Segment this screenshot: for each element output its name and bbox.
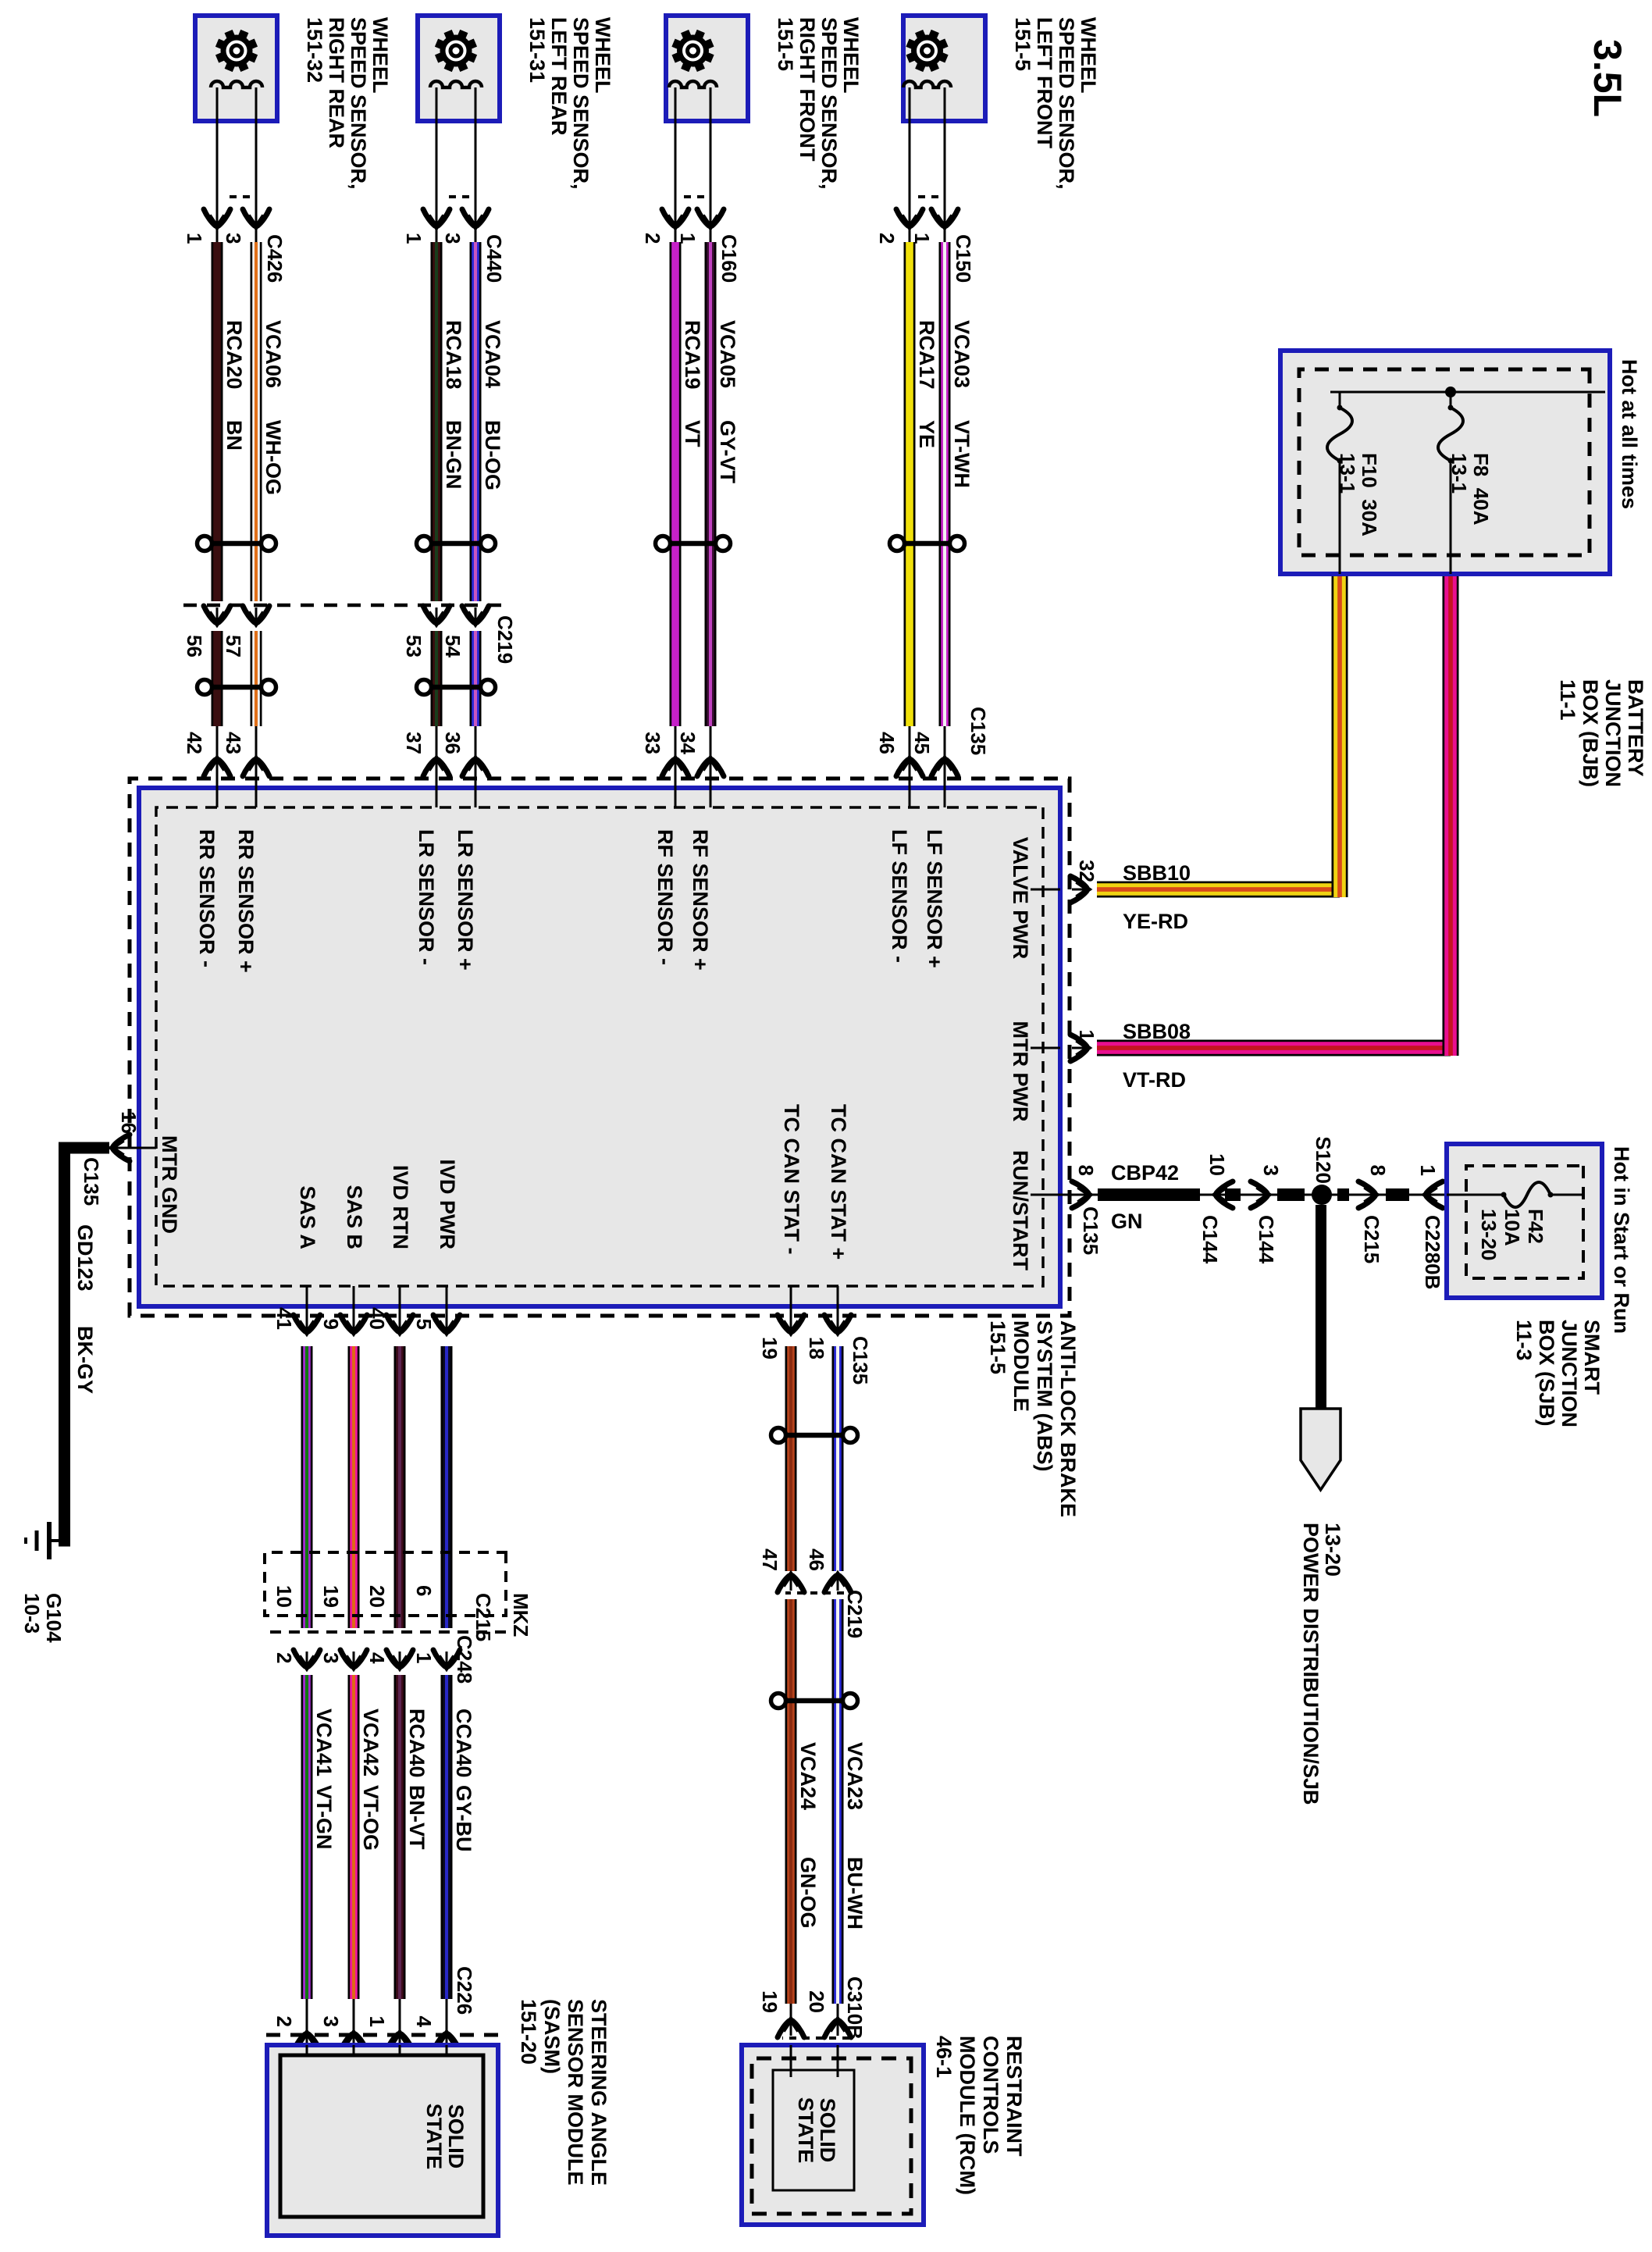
svg-text:WHEEL: WHEEL [368,17,392,94]
svg-text:1: 1 [402,233,425,244]
svg-text:C135: C135 [967,707,990,755]
svg-text:IVD RTN: IVD RTN [389,1165,412,1249]
wire VCA05 GY-VT (upper) [705,242,740,726]
svg-text:GY-BU: GY-BU [452,1785,475,1852]
RCM name label [932,2036,1026,2195]
connector C248 pin 3 [319,1650,367,1668]
svg-text:C426: C426 [263,234,287,283]
svg-text:VCA24: VCA24 [796,1742,820,1810]
svg-text:VT-WH: VT-WH [950,420,974,488]
svg-text:151-31: 151-31 [525,17,549,83]
SJB name label [1512,1320,1604,1427]
twisted pair marker VCA23/VCA24 (2) [771,1694,858,1709]
svg-text:BN: BN [223,420,246,451]
connector C248 pin 1 [412,1650,460,1668]
svg-text:43: 43 [222,732,245,754]
wire VCA04 after C219 [470,631,482,726]
wire CBP42 GN [1060,1161,1583,1233]
svg-text:41: 41 [272,1307,296,1330]
svg-text:8: 8 [1074,1165,1098,1176]
fuse F10 30A 13-1 [1327,392,1381,574]
connector C144 pin 10 [1198,1153,1233,1264]
svg-text:C215: C215 [472,1593,495,1641]
wire RCA20 after C219 [212,631,223,726]
connector C426 [204,197,287,283]
svg-text:4: 4 [365,1652,389,1664]
fuse F42 10A 13-20 [1447,1182,1583,1261]
svg-text:MODULE (RCM): MODULE (RCM) [956,2036,979,2195]
svg-text:2: 2 [272,1652,296,1663]
svg-text:BATTERY: BATTERY [1624,679,1647,777]
svg-text:VT: VT [681,420,704,447]
wheel speed sensor LEFT REAR 151-31 connector box [418,16,500,121]
svg-text:SYSTEM (ABS): SYSTEM (ABS) [1033,1320,1056,1472]
svg-text:F42: F42 [1524,1209,1547,1244]
connector C2280B pin 1 [1416,1165,1444,1290]
svg-text:RCA20: RCA20 [223,320,246,390]
module pin 1 (MTR PWR) arrow [1070,1030,1098,1061]
connector C248 pin 2 [272,1650,320,1668]
svg-text:C150: C150 [952,234,975,283]
twisted pair marker 2 VCA06/RCA20 [198,680,276,695]
connector C160 [662,197,741,283]
svg-text:SPEED SENSOR,: SPEED SENSOR, [347,17,370,190]
svg-text:GD123: GD123 [73,1224,97,1292]
smart junction box (SJB) [1447,1144,1602,1298]
svg-text:LR SENSOR -: LR SENSOR - [415,829,438,965]
svg-text:GY-VT: GY-VT [716,420,739,484]
svg-text:1: 1 [183,233,206,244]
wire SBB10 YE-RD [1097,574,1348,933]
svg-text:10A: 10A [1501,1209,1524,1246]
svg-text:GN-OG: GN-OG [796,1857,820,1929]
svg-text:ANTI-LOCK BRAKE: ANTI-LOCK BRAKE [1056,1320,1080,1517]
module pin label VALVE PWR [1009,837,1060,960]
wire leads from sensor C150 [910,87,945,242]
svg-text:RR SENSOR +: RR SENSOR + [234,829,258,973]
svg-text:RCA17: RCA17 [915,320,938,390]
svg-text:SMART: SMART [1580,1320,1604,1395]
module entry pins 45/46 [875,726,958,776]
svg-text:IVD PWR: IVD PWR [436,1159,459,1249]
wire VCA03 VT-WH (upper) [939,242,974,726]
svg-text:53: 53 [402,635,425,657]
wire VCA42 VT-OG [348,1346,383,1999]
svg-text:2: 2 [875,233,899,244]
svg-text:13-20: 13-20 [1477,1209,1501,1261]
connector C248 pin 4 [365,1650,413,1668]
svg-text:SPEED SENSOR,: SPEED SENSOR, [569,17,593,190]
connector C440 [423,197,506,283]
svg-text:5: 5 [412,1319,436,1330]
svg-text:RIGHT FRONT: RIGHT FRONT [796,17,819,162]
svg-text:42: 42 [183,732,206,754]
svg-text:54: 54 [441,635,465,657]
svg-text:SENSOR MODULE: SENSOR MODULE [564,1999,587,2186]
twisted pair marker VCA03/RCA17 [890,536,965,551]
svg-text:47: 47 [758,1548,781,1571]
module pin 16 (MTR GND) arrow [80,1111,156,1206]
label wheel speed sensor LEFT FRONT [1011,17,1100,190]
svg-text:40: 40 [365,1307,389,1330]
steering angle sensor module (SASM) box [267,2045,498,2236]
svg-text:16: 16 [117,1111,141,1134]
twisted pair marker VCA06/RCA20 [198,536,276,551]
svg-text:RR SENSOR -: RR SENSOR - [195,829,219,967]
wire RCA19 VT (lower) [670,242,705,726]
svg-text:33: 33 [641,732,664,754]
svg-text:BOX (BJB): BOX (BJB) [1579,679,1602,787]
svg-text:STEERING ANGLE: STEERING ANGLE [587,1999,611,2186]
svg-text:6: 6 [412,1585,436,1596]
connector C310B dashes + label [782,1976,867,2040]
svg-text:56: 56 [183,635,206,657]
svg-text:MKZ: MKZ [509,1593,532,1637]
module exit pin 19 (VCA24) [758,1315,804,1359]
module pin label IVD PWR [436,1159,459,1318]
svg-text:2: 2 [272,2016,296,2027]
svg-text:18: 18 [805,1337,828,1359]
wire VCA41 VT-GN [301,1346,336,1999]
svg-text:BOX (SJB): BOX (SJB) [1535,1320,1558,1427]
svg-text:YE: YE [915,420,938,448]
svg-text:57: 57 [222,635,245,657]
wire RCA20 BN (lower) [212,242,247,601]
svg-text:11-1: 11-1 [1556,679,1579,721]
svg-text:19: 19 [758,1990,781,2013]
battery junction box (BJB) [1280,351,1610,574]
splice S120 [1312,1136,1335,1205]
svg-text:19: 19 [758,1337,781,1359]
module entry pins 36/37 [402,726,489,776]
svg-text:C219: C219 [493,615,517,664]
svg-text:SBB08: SBB08 [1123,1020,1191,1043]
module exit pin 40 (RCA40) [365,1307,413,1333]
BJB name label [1556,679,1647,787]
svg-text:4: 4 [412,2016,436,2028]
module entry pins 43/42 [183,726,269,776]
svg-text:SBB10: SBB10 [1123,861,1191,885]
svg-text:SAS A: SAS A [296,1185,319,1249]
module pin label IVD RTN [389,1165,412,1318]
svg-text:VT-GN: VT-GN [312,1785,336,1850]
svg-text:TC CAN STAT -: TC CAN STAT - [780,1104,803,1254]
connector C219 dashed boundary [180,605,517,664]
svg-text:SOLID: SOLID [816,2098,839,2163]
svg-text:TC CAN STAT +: TC CAN STAT + [827,1104,850,1260]
wire RCA17 YE (lower) [904,242,939,726]
svg-text:YE-RD: YE-RD [1123,910,1188,933]
svg-text:1: 1 [412,1652,436,1663]
anti-lock brake system (ABS) module box [139,788,1060,1306]
svg-text:LF SENSOR +: LF SENSOR + [923,829,946,968]
svg-text:GN: GN [1111,1210,1143,1233]
svg-text:C226: C226 [453,1966,476,2015]
svg-text:RCA18: RCA18 [442,320,465,390]
sensor wire stubs inside module [217,775,945,807]
svg-text:BK-GY: BK-GY [73,1326,97,1394]
svg-text:Hot in Start or Run: Hot in Start or Run [1610,1146,1633,1334]
svg-text:46: 46 [805,1548,828,1571]
wire S120 branch to power distribution [1316,1205,1326,1409]
svg-text:46-1: 46-1 [932,2036,956,2078]
svg-text:S120: S120 [1312,1136,1335,1184]
connector C219 pin 46 [805,1548,851,1592]
SASM entry pin 1 [365,1999,413,2051]
svg-text:(SASM): (SASM) [540,1999,564,2074]
twisted pair marker VCA04/RCA18 [417,536,496,551]
svg-text:32: 32 [1075,860,1098,882]
connector C248 dashed line [265,1632,506,1684]
svg-text:BN-GN: BN-GN [442,420,465,490]
svg-text:F8 40A: F8 40A [1469,453,1493,526]
svg-text:VCA23: VCA23 [843,1742,867,1810]
twisted pair marker VCA05/RCA19 [656,536,731,551]
svg-text:C144: C144 [1198,1215,1222,1264]
svg-text:G104: G104 [42,1593,66,1643]
module pin label SAS B [343,1185,366,1318]
svg-text:C135: C135 [849,1336,872,1384]
svg-text:RCA19: RCA19 [681,320,704,390]
svg-text:LR SENSOR +: LR SENSOR + [454,829,477,971]
module entry pins 34/33 [641,726,724,776]
svg-text:3: 3 [441,233,465,244]
svg-text:46: 46 [875,732,899,754]
svg-text:13-1: 13-1 [1336,453,1359,494]
svg-text:VT-RD: VT-RD [1123,1068,1186,1092]
wire VCA06 after C219 [251,631,262,726]
wire leads from sensor C426 [217,87,256,242]
svg-text:BN-VT: BN-VT [405,1785,429,1850]
svg-text:3: 3 [319,2016,343,2027]
SASM entry pin 3 [319,1999,367,2051]
svg-text:RUN/START: RUN/START [1009,1150,1032,1270]
svg-text:RIGHT REAR: RIGHT REAR [325,17,348,148]
svg-text:CBP42: CBP42 [1111,1161,1179,1185]
svg-text:13-1: 13-1 [1447,453,1471,494]
label wheel speed sensor RIGHT REAR [303,17,392,190]
wheel speed sensor RIGHT FRONT 151-5 connector box [666,16,748,121]
module pin label MTR PWR [1009,1021,1060,1122]
module exit pin 41 (VCA41) [272,1307,320,1333]
svg-text:C160: C160 [717,234,741,283]
svg-text:C440: C440 [482,234,506,283]
module pin 8 (RUN/START) arrow [1072,1165,1102,1256]
svg-text:WHEEL: WHEEL [591,17,614,94]
connector C219 pin 47 [758,1548,804,1592]
twisted pair marker 2 VCA04/RCA18 [417,680,496,695]
ABS module name label [986,1320,1080,1517]
wire VCA06 WH-OG (upper) [251,242,286,601]
twisted pair marker VCA23/VCA24 (1) [771,1428,858,1443]
wire VCA23 BU-WH [832,1346,867,2004]
RCM entry pin 20 [805,1990,851,2037]
svg-text:151-20: 151-20 [517,1999,540,2065]
svg-text:F10 30A: F10 30A [1358,453,1381,536]
svg-text:34: 34 [676,732,700,754]
svg-text:2: 2 [641,233,664,244]
svg-text:C248: C248 [453,1635,476,1684]
svg-text:1: 1 [365,2016,389,2027]
wire leads from sensor C440 [436,87,475,242]
SASM entry pin 2 [272,1999,320,2051]
connector C219 pins 56/57 [183,606,269,657]
svg-text:WH-OG: WH-OG [262,420,285,495]
off-page arrow 13-20 POWER DISTRIBUTION/SJB [1299,1409,1344,1805]
svg-text:LEFT REAR: LEFT REAR [547,17,571,136]
SASM entry dashed line [265,2033,498,2037]
svg-text:C215: C215 [1360,1215,1383,1263]
svg-text:VCA06: VCA06 [262,320,285,388]
svg-text:VCA42: VCA42 [359,1709,383,1776]
svg-text:SPEED SENSOR,: SPEED SENSOR, [1055,17,1078,190]
svg-text:POWER DISTRIBUTION/SJB: POWER DISTRIBUTION/SJB [1299,1523,1323,1805]
svg-text:BU-WH: BU-WH [843,1857,867,1930]
svg-text:3: 3 [222,233,245,244]
svg-text:C135: C135 [1079,1206,1102,1255]
connector C215 pin 8 [1358,1165,1390,1264]
svg-text:C135: C135 [80,1157,103,1206]
svg-text:RCA40: RCA40 [405,1709,429,1778]
svg-text:VT-OG: VT-OG [359,1785,383,1851]
svg-text:SPEED SENSOR,: SPEED SENSOR, [817,17,841,190]
wire leads from sensor C160 [675,87,710,242]
wire RCA18 after C219 [431,631,443,726]
svg-text:C144: C144 [1255,1215,1278,1264]
svg-text:RESTRAINT: RESTRAINT [1002,2036,1026,2157]
SASM entry pin 4 [412,1999,460,2051]
wire VCA04 BU-OG (upper) [470,242,505,601]
svg-text:19: 19 [319,1585,343,1608]
svg-text:CONTROLS: CONTROLS [979,2036,1002,2154]
svg-text:MODULE: MODULE [1009,1320,1033,1412]
label wheel speed sensor RIGHT FRONT [774,17,863,190]
wire CCA40 GY-BU [441,1346,476,1999]
wire RCA18 BN-GN (lower) [431,242,466,601]
svg-text:151-5: 151-5 [774,17,797,71]
svg-text:13-20: 13-20 [1321,1523,1344,1577]
svg-text:11-3: 11-3 [1512,1320,1536,1361]
svg-text:Hot at all times: Hot at all times [1618,359,1641,509]
svg-text:3: 3 [319,1652,343,1663]
connector C219 pins 53/54 [402,606,489,657]
ground G104 [20,1522,66,1643]
svg-text:VCA04: VCA04 [481,320,504,388]
svg-text:45: 45 [910,732,934,754]
svg-text:MTR PWR: MTR PWR [1009,1021,1032,1122]
svg-text:SAS B: SAS B [343,1185,366,1249]
svg-text:BU-OG: BU-OG [481,420,504,490]
module pin label RUN/START [1009,1150,1060,1270]
svg-text:CCA40: CCA40 [452,1709,475,1778]
wire RCA40 BN-VT [394,1346,429,1999]
wheel speed sensor RIGHT REAR 151-32 connector box [195,16,277,121]
connector MKZ C215 dashed box [265,1552,532,1641]
connector C219 (CAN) dashes + label [785,1590,867,1638]
svg-text:C219: C219 [843,1590,867,1638]
svg-text:VCA41: VCA41 [312,1709,336,1776]
svg-text:RF SENSOR +: RF SENSOR + [689,829,712,971]
svg-text:10: 10 [1205,1153,1229,1176]
svg-text:9: 9 [319,1319,343,1330]
fuse F8 40A 13-1 [1438,392,1493,574]
svg-text:JUNCTION: JUNCTION [1558,1320,1581,1427]
svg-text:20: 20 [805,1990,828,2013]
wire SBB08 VT-RD [1097,574,1459,1092]
BJB bus wire [1330,387,1605,397]
RCM entry pin 19 [758,1990,804,2037]
SASM name label [517,1999,611,2186]
svg-text:C310B: C310B [843,1976,867,2040]
connector C150 [896,197,975,283]
svg-text:151-32: 151-32 [303,17,326,83]
label wheel speed sensor LEFT REAR [525,17,614,190]
svg-text:151-5: 151-5 [986,1320,1009,1374]
module pin label SAS A [296,1185,319,1318]
wire GD123 BK-GY [59,1142,109,1547]
wire VCA24 GN-OG [785,1346,821,2004]
svg-text:3.5L: 3.5L [1586,39,1629,117]
svg-text:JUNCTION: JUNCTION [1601,679,1625,787]
connector C144 pin 3 [1251,1165,1283,1264]
svg-text:8: 8 [1366,1165,1390,1176]
svg-text:C2280B: C2280B [1421,1215,1444,1289]
svg-text:1: 1 [1075,1030,1098,1041]
svg-text:36: 36 [441,732,465,754]
svg-text:WHEEL: WHEEL [839,17,863,94]
svg-text:MTR GND: MTR GND [158,1135,181,1234]
svg-text:SOLID: SOLID [444,2104,468,2169]
ABS module outer dashed harness boundary C135 [130,779,1070,1316]
svg-text:LF SENSOR -: LF SENSOR - [888,829,911,963]
module exit pin 18 (VCA23) [805,1315,851,1359]
svg-text:151-5: 151-5 [1011,17,1034,71]
wheel speed sensor LEFT FRONT 151-5 connector box [903,16,985,121]
svg-text:LEFT FRONT: LEFT FRONT [1033,17,1056,148]
module exit pin 5 (CCA40) [412,1315,460,1333]
svg-text:VCA05: VCA05 [716,320,739,388]
svg-text:VCA03: VCA03 [950,320,974,388]
module pin 32 (VALVE PWR) arrow [1070,860,1098,903]
svg-text:37: 37 [402,732,425,754]
svg-text:WHEEL: WHEEL [1077,17,1100,94]
svg-text:VALVE PWR: VALVE PWR [1009,837,1032,960]
svg-text:20: 20 [365,1585,389,1608]
svg-text:1: 1 [1416,1165,1440,1176]
svg-text:10-3: 10-3 [20,1593,44,1634]
restraint controls module (RCM) box [742,2045,924,2225]
module pin label TC CAN STAT + [827,1104,850,1318]
svg-text:STATE: STATE [422,2104,446,2170]
module pin label TC CAN STAT - [780,1104,803,1318]
svg-text:3: 3 [1259,1165,1283,1176]
svg-text:10: 10 [272,1585,296,1608]
module exit pin 9 (VCA42) [319,1315,367,1333]
svg-text:STATE: STATE [794,2097,817,2164]
svg-text:RF SENSOR -: RF SENSOR - [653,829,677,965]
